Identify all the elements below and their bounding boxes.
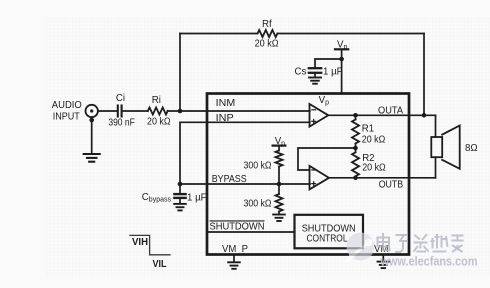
wire: OUTB up to speaker <box>435 157 437 178</box>
junction: Cs tap <box>339 57 344 62</box>
svg-text:R1: R1 <box>362 124 374 135</box>
ground (audio input) <box>84 154 100 162</box>
svg-text:www.elecfans.com: www.elecfans.com <box>380 253 478 268</box>
svg-text:Ri: Ri <box>152 95 161 106</box>
svg-text:Rf: Rf <box>262 19 272 30</box>
wire: Ci to Ri <box>122 110 148 112</box>
junction: R2 bottom on OUTB <box>353 176 358 181</box>
resistor Ri <box>148 108 168 115</box>
wire: feedback top run (right of Rf) <box>278 33 425 35</box>
shutdown control block <box>295 215 364 249</box>
wire: OUTA run <box>328 114 435 116</box>
svg-text:CONTROL: CONTROL <box>307 233 349 244</box>
wire: Cs branch <box>315 59 342 67</box>
svg-text:VIL: VIL <box>153 259 167 270</box>
speaker LS1 <box>431 137 442 157</box>
svg-text:1 µF: 1 µF <box>323 66 343 77</box>
capacitor Cbypass <box>174 194 185 198</box>
svg-text:8Ω: 8Ω <box>465 143 478 154</box>
svg-text:VIH: VIH <box>132 237 148 248</box>
wire: feedback top run (left of Rf) <box>180 33 258 35</box>
svg-text:OUTB: OUTB <box>379 180 404 191</box>
svg-text:1 µF: 1 µF <box>187 192 207 203</box>
ground (VM pin) <box>382 255 384 262</box>
supply Vp rail (top) <box>335 48 348 50</box>
svg-text:INPUT: INPUT <box>53 112 80 123</box>
wire: jack sleeve to ground <box>91 117 93 154</box>
svg-text:Cs: Cs <box>295 66 307 77</box>
resistor R2 <box>355 148 357 152</box>
resistor 300k upper <box>276 151 283 167</box>
svg-text:20 kΩ: 20 kΩ <box>362 163 386 174</box>
svg-text:20 kΩ: 20 kΩ <box>255 38 279 49</box>
wire: bypass node to Cbypass <box>179 184 181 194</box>
wire: Vp to VDD pin <box>341 49 343 93</box>
junction: feedback to OUTA <box>422 113 427 118</box>
ground (bias divider) <box>273 215 285 222</box>
wire: OUTB run <box>329 177 436 179</box>
wire: OUTA down to speaker <box>435 115 437 137</box>
shutdown VIH/VIL waveform <box>130 235 170 254</box>
svg-text:SHUTDOWN: SHUTDOWN <box>210 221 265 232</box>
supply Vp rail (bias divider) <box>273 145 286 147</box>
svg-text:300 kΩ: 300 kΩ <box>244 161 272 172</box>
junction: feedback / input node <box>178 109 183 114</box>
ground (Cs) <box>309 78 321 84</box>
wire: Cbypass to ground <box>179 198 181 204</box>
wire: Ri to INM pin (node at feedback tap) <box>168 110 310 112</box>
wire: R upper to bypass rail <box>278 167 280 185</box>
wire: audio jack to Ci <box>98 110 117 112</box>
wire: SHUTDOWN pin to control block <box>207 231 295 233</box>
resistor 300k lower <box>276 194 283 212</box>
IC box U1 <box>207 94 409 255</box>
junction: R1/R2 midpoint <box>353 146 358 151</box>
wire: feedback right vertical to OUTA <box>423 34 425 116</box>
op-amp U1B <box>310 166 330 190</box>
wire: midpoint to amp2 inverting input <box>298 148 356 170</box>
svg-text:BYPASS: BYPASS <box>212 174 247 185</box>
ground (VM_P pin) <box>233 255 235 263</box>
junction: jack sleeve <box>89 118 94 123</box>
junction: bypass node <box>178 182 183 187</box>
audio input jack <box>86 105 98 117</box>
svg-text:AUDIO: AUDIO <box>52 100 82 111</box>
wire: feedback left vertical <box>179 34 181 112</box>
junction: divider midpoint <box>277 182 282 187</box>
svg-text:20 kΩ: 20 kΩ <box>362 135 386 146</box>
resistor R1 <box>355 115 357 119</box>
svg-text:20 kΩ: 20 kΩ <box>147 117 171 128</box>
wire: BYPASS pin run to amp2 + input <box>180 183 310 185</box>
svg-text:300 kΩ: 300 kΩ <box>244 199 272 210</box>
wire: INP routing (box edge to bypass node) <box>180 122 310 184</box>
svg-text:390 nF: 390 nF <box>108 118 135 129</box>
wire: Cs to ground <box>314 73 316 77</box>
wire: R lower to ground <box>278 212 280 215</box>
wire: Vp to R upper <box>278 146 280 151</box>
ground (Cbypass) <box>174 204 186 211</box>
resistor Rf <box>258 30 278 37</box>
svg-text:Ci: Ci <box>116 93 125 104</box>
svg-text:OUTA: OUTA <box>378 106 404 117</box>
capacitor Cs <box>309 68 321 73</box>
junction: R1 top <box>353 113 358 118</box>
capacitor Ci <box>118 106 122 117</box>
svg-text:VM_P: VM_P <box>222 244 248 255</box>
svg-text:INM: INM <box>216 98 236 109</box>
watermark: elecfans logo <box>345 233 375 263</box>
watermark: 电子发烧友 glyphs <box>378 233 464 252</box>
op-amp U1A <box>310 104 329 127</box>
svg-text:INP: INP <box>216 113 234 124</box>
wire: bypass rail to R lower <box>278 184 280 194</box>
